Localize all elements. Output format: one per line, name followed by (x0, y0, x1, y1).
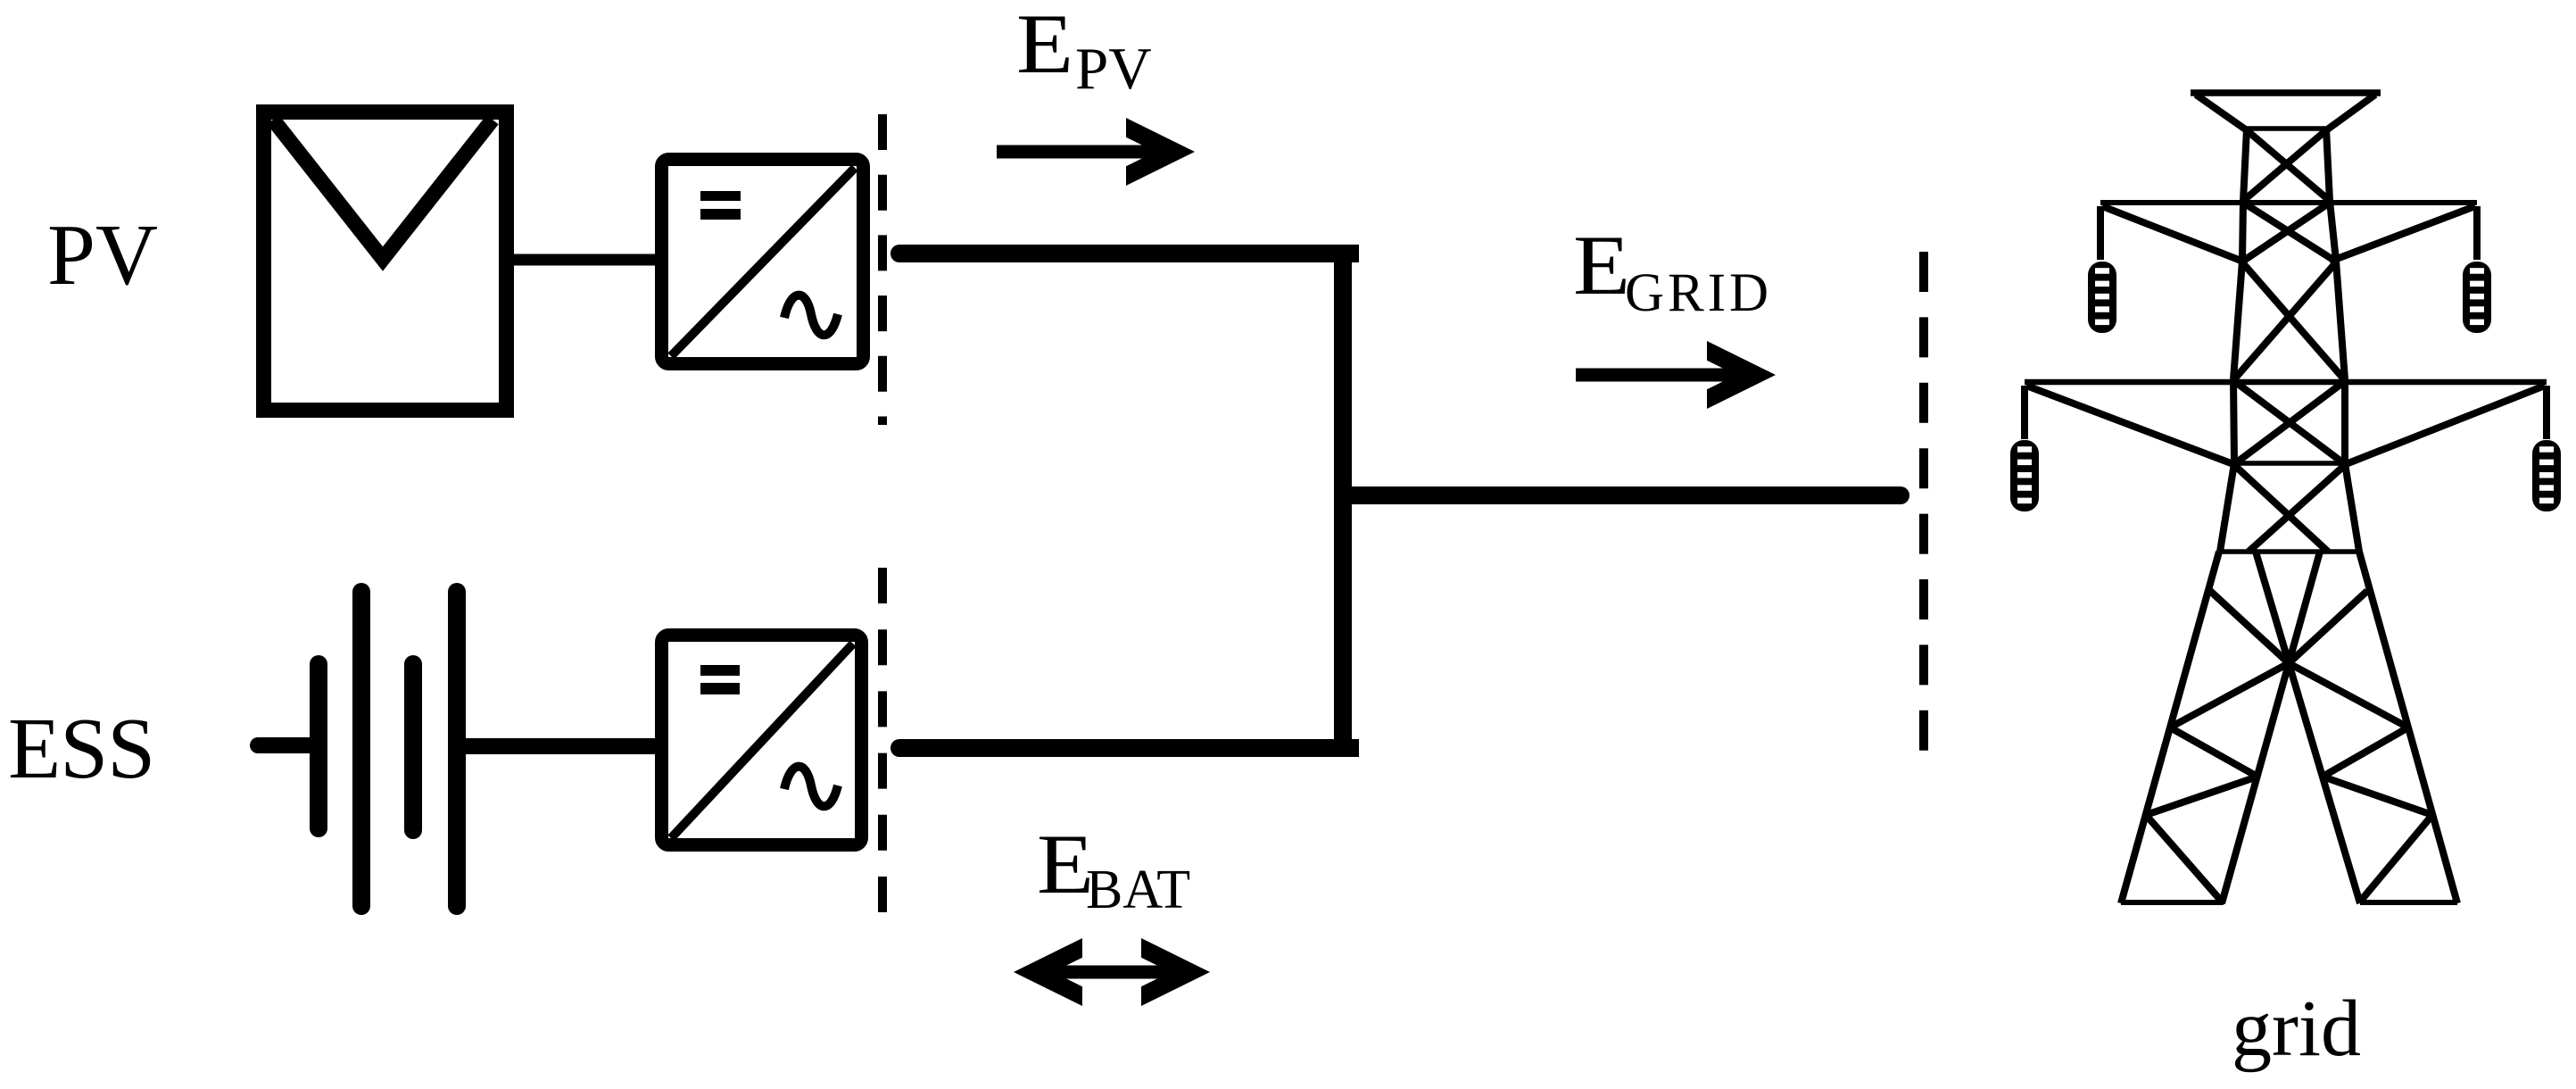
svg-text:PV: PV (1075, 36, 1152, 102)
svg-text:BAT: BAT (1086, 860, 1190, 920)
svg-text:grid: grid (2232, 985, 2361, 1073)
svg-text:GRID: GRID (1625, 263, 1772, 323)
svg-text:ESS: ESS (8, 701, 154, 796)
svg-text:PV: PV (47, 207, 158, 303)
svg-text:E: E (1016, 0, 1073, 91)
svg-text:E: E (1573, 218, 1630, 312)
